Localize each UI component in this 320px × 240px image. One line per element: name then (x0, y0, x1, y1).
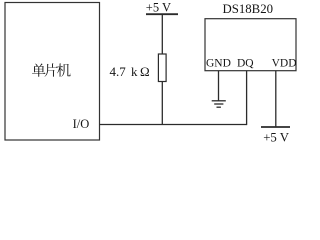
resistor R1 body (158, 54, 166, 82)
svg-text:DS18B20: DS18B20 (223, 2, 274, 16)
power rail bar (bottom +5V) (261, 126, 290, 128)
label 单片机 (microcontroller) (32, 63, 71, 76)
svg-text:4.7 k Ω: 4.7 k Ω (110, 64, 150, 79)
svg-text:+5 V: +5 V (146, 1, 171, 15)
svg-text:DQ: DQ (237, 58, 254, 70)
svg-text:I/O: I/O (73, 117, 90, 131)
wire: VDD pin down to +5V bar (275, 71, 277, 127)
wire: GND pin down (218, 71, 220, 101)
wire: resistor bottom to I/O net junction (161, 82, 163, 125)
svg-text:GND: GND (206, 58, 231, 70)
wire: DQ pin down to I/O net (246, 71, 248, 125)
ground symbol (212, 101, 226, 107)
svg-text:VDD: VDD (272, 58, 297, 70)
power rail bar (top +5V) (146, 13, 178, 15)
MCU box U1 (microcontroller) (5, 3, 100, 141)
svg-text:+5 V: +5 V (263, 130, 290, 143)
wire: I/O net from MCU to DQ (100, 124, 247, 126)
wire: +5V rail to resistor top (161, 14, 163, 54)
sensor box U2 (DS18B20) (205, 19, 296, 71)
